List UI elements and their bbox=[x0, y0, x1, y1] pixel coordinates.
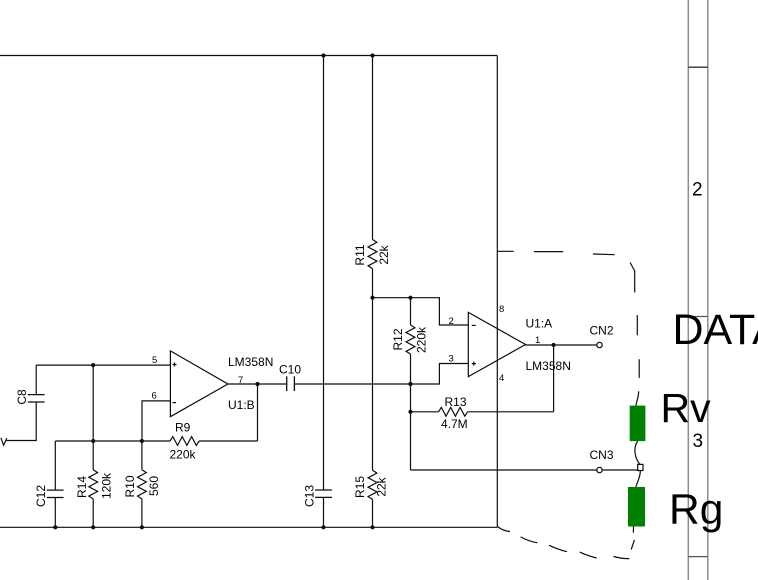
svg-text:C12: C12 bbox=[34, 485, 48, 507]
wire right vertical rail V+ bbox=[496, 56, 498, 528]
wire R9 right lead bbox=[199, 440, 257, 442]
node U1:A output junction bbox=[552, 343, 556, 347]
node R14 top junction bbox=[91, 439, 95, 443]
resistor R10 560 bbox=[123, 441, 161, 499]
resistor Rv external bbox=[630, 406, 646, 442]
op-amp U1:B LM358N bbox=[152, 351, 274, 417]
wire R12 top lead bbox=[410, 298, 412, 325]
svg-text:Rv: Rv bbox=[661, 385, 712, 431]
wire U1:A output bbox=[526, 344, 597, 346]
wire C13 branch lower bbox=[323, 497, 325, 527]
wire dashed module boundary bottom bbox=[498, 527, 630, 559]
wire bottom rail bbox=[0, 526, 497, 528]
svg-text:1: 1 bbox=[535, 335, 540, 346]
svg-text:220k: 220k bbox=[170, 448, 197, 462]
svg-text:560: 560 bbox=[147, 476, 161, 496]
svg-text:22k: 22k bbox=[377, 244, 391, 264]
svg-text:22k: 22k bbox=[375, 476, 389, 496]
wire R15 top lead bbox=[372, 298, 374, 471]
svg-text:R15: R15 bbox=[353, 476, 367, 498]
capacitor C8 bbox=[15, 365, 45, 405]
svg-text:C10: C10 bbox=[279, 363, 301, 377]
wire U1:B feedback vertical bbox=[257, 384, 259, 441]
wire dashed module boundary corner bbox=[630, 263, 635, 293]
wire C10 to pin3 node bbox=[294, 383, 410, 385]
wire R14 bottom lead bbox=[92, 499, 94, 527]
wire dashed module boundary right bbox=[637, 315, 639, 378]
svg-text:2: 2 bbox=[692, 180, 703, 201]
wire pin3 net step bbox=[411, 364, 469, 385]
svg-text:R14: R14 bbox=[75, 476, 89, 498]
svg-text:DATA: DATA bbox=[673, 306, 758, 354]
node R12 top junction bbox=[408, 296, 412, 300]
capacitor C13 bbox=[303, 485, 332, 507]
wire pin5 input bbox=[36, 364, 170, 366]
svg-text:6: 6 bbox=[152, 391, 157, 402]
svg-text:U1:B: U1:B bbox=[228, 398, 255, 412]
resistor R13 4.7M bbox=[439, 395, 468, 431]
wire pin5 to R14 vertical bbox=[92, 365, 94, 470]
svg-text:R10: R10 bbox=[123, 475, 137, 497]
svg-text:R9: R9 bbox=[175, 421, 191, 435]
svg-text:R13: R13 bbox=[445, 395, 467, 409]
node bottom-rail C13 junction bbox=[321, 525, 325, 529]
capacitor C10 bbox=[279, 363, 301, 392]
svg-text:U1:A: U1:A bbox=[526, 317, 553, 331]
svg-text:CN2: CN2 bbox=[590, 324, 614, 338]
svg-text:4: 4 bbox=[499, 373, 504, 384]
bus tick top bbox=[688, 66, 708, 68]
wire R13 left lead bbox=[411, 411, 439, 413]
wire R12 bottom lead bbox=[410, 354, 412, 384]
wire R9 left lead bbox=[142, 440, 170, 442]
svg-text:C13: C13 bbox=[303, 485, 317, 507]
resistor R11 22k bbox=[353, 240, 391, 269]
svg-text:C8: C8 bbox=[15, 389, 29, 405]
wire R11 bottom lead bbox=[372, 269, 374, 298]
node top-rail C13 junction bbox=[321, 53, 325, 57]
wire U1:A feedback vertical bbox=[553, 345, 555, 412]
wire hook into Rv bbox=[636, 391, 639, 406]
capacitor C12 bbox=[34, 485, 64, 507]
node top-rail R11 junction bbox=[370, 53, 374, 57]
wire R15 bottom lead bbox=[372, 499, 374, 527]
wire square to Rg bbox=[636, 471, 641, 488]
svg-text:R11: R11 bbox=[353, 244, 367, 265]
resistor Rg external bbox=[628, 487, 645, 527]
wire Rg bottom dashes bbox=[631, 526, 634, 549]
node bottom-rail R10 junction bbox=[140, 525, 144, 529]
svg-text:LM358N: LM358N bbox=[228, 355, 273, 369]
wire C12 bottom lead bbox=[54, 498, 56, 528]
svg-text:CN3: CN3 bbox=[590, 448, 614, 462]
op-amp U1:A LM358N bbox=[449, 304, 571, 384]
resistor R15 22k bbox=[353, 470, 389, 499]
wire Rv to junction square bbox=[635, 441, 640, 464]
wire U1:B output bbox=[228, 383, 287, 385]
svg-text:R12: R12 bbox=[391, 328, 405, 350]
node R9/R10/pin6 junction bbox=[140, 439, 144, 443]
svg-text:5: 5 bbox=[152, 355, 157, 366]
wire CN3 branch vertical bbox=[410, 384, 412, 470]
node R13/CN3 branch junction bbox=[408, 410, 412, 414]
svg-text:120k: 120k bbox=[100, 472, 114, 499]
bus tick middle DATA bbox=[688, 316, 708, 318]
svg-text:LM358N: LM358N bbox=[526, 359, 571, 373]
pin CN3 terminal circle bbox=[597, 467, 602, 472]
wire C12 top lead bbox=[54, 441, 56, 490]
node pin5/R14 junction bbox=[91, 363, 95, 367]
wire dashed module boundary top bbox=[498, 251, 615, 254]
svg-text:3: 3 bbox=[693, 431, 704, 452]
wire CN3 to external junction bbox=[602, 469, 638, 471]
node bottom-rail C12 junction bbox=[53, 525, 57, 529]
svg-text:4.7M: 4.7M bbox=[441, 417, 468, 431]
wire pin6 input bbox=[142, 401, 170, 441]
wire R13 right lead bbox=[468, 411, 554, 413]
bus tick bottom bbox=[688, 556, 708, 558]
node bottom-rail R15 junction bbox=[370, 525, 374, 529]
bus vertical line right bbox=[707, 0, 709, 580]
resistor R12 220k bbox=[391, 325, 429, 354]
pin off-page V arrow bbox=[1, 438, 7, 446]
svg-text:2: 2 bbox=[449, 316, 454, 327]
node external junction square bbox=[638, 464, 643, 470]
wire R10 bottom lead bbox=[141, 499, 143, 527]
node C10/R12/pin3 junction bbox=[408, 382, 412, 386]
wire R11 top lead bbox=[372, 56, 374, 240]
svg-text:Rg: Rg bbox=[669, 487, 723, 534]
node bottom-rail R14 junction bbox=[91, 525, 95, 529]
resistor R9 220k bbox=[170, 421, 200, 462]
wire pin2 net horizontal bbox=[373, 298, 469, 325]
node U1:B output junction bbox=[255, 382, 259, 386]
svg-text:8: 8 bbox=[499, 304, 504, 315]
bus vertical line left bbox=[687, 0, 689, 580]
resistor R14 120k bbox=[75, 470, 114, 499]
wire R14-R10 row bbox=[55, 440, 142, 442]
wire CN3 horizontal bbox=[411, 469, 597, 471]
pin CN2 terminal circle bbox=[597, 342, 602, 347]
wire C13 branch upper bbox=[323, 56, 325, 491]
wire C8 bottom lead bbox=[7, 402, 37, 441]
svg-text:220k: 220k bbox=[415, 326, 429, 353]
wire top rail bbox=[0, 55, 497, 57]
node R11/R15/pin2 junction bbox=[370, 296, 374, 300]
svg-text:3: 3 bbox=[449, 354, 454, 365]
